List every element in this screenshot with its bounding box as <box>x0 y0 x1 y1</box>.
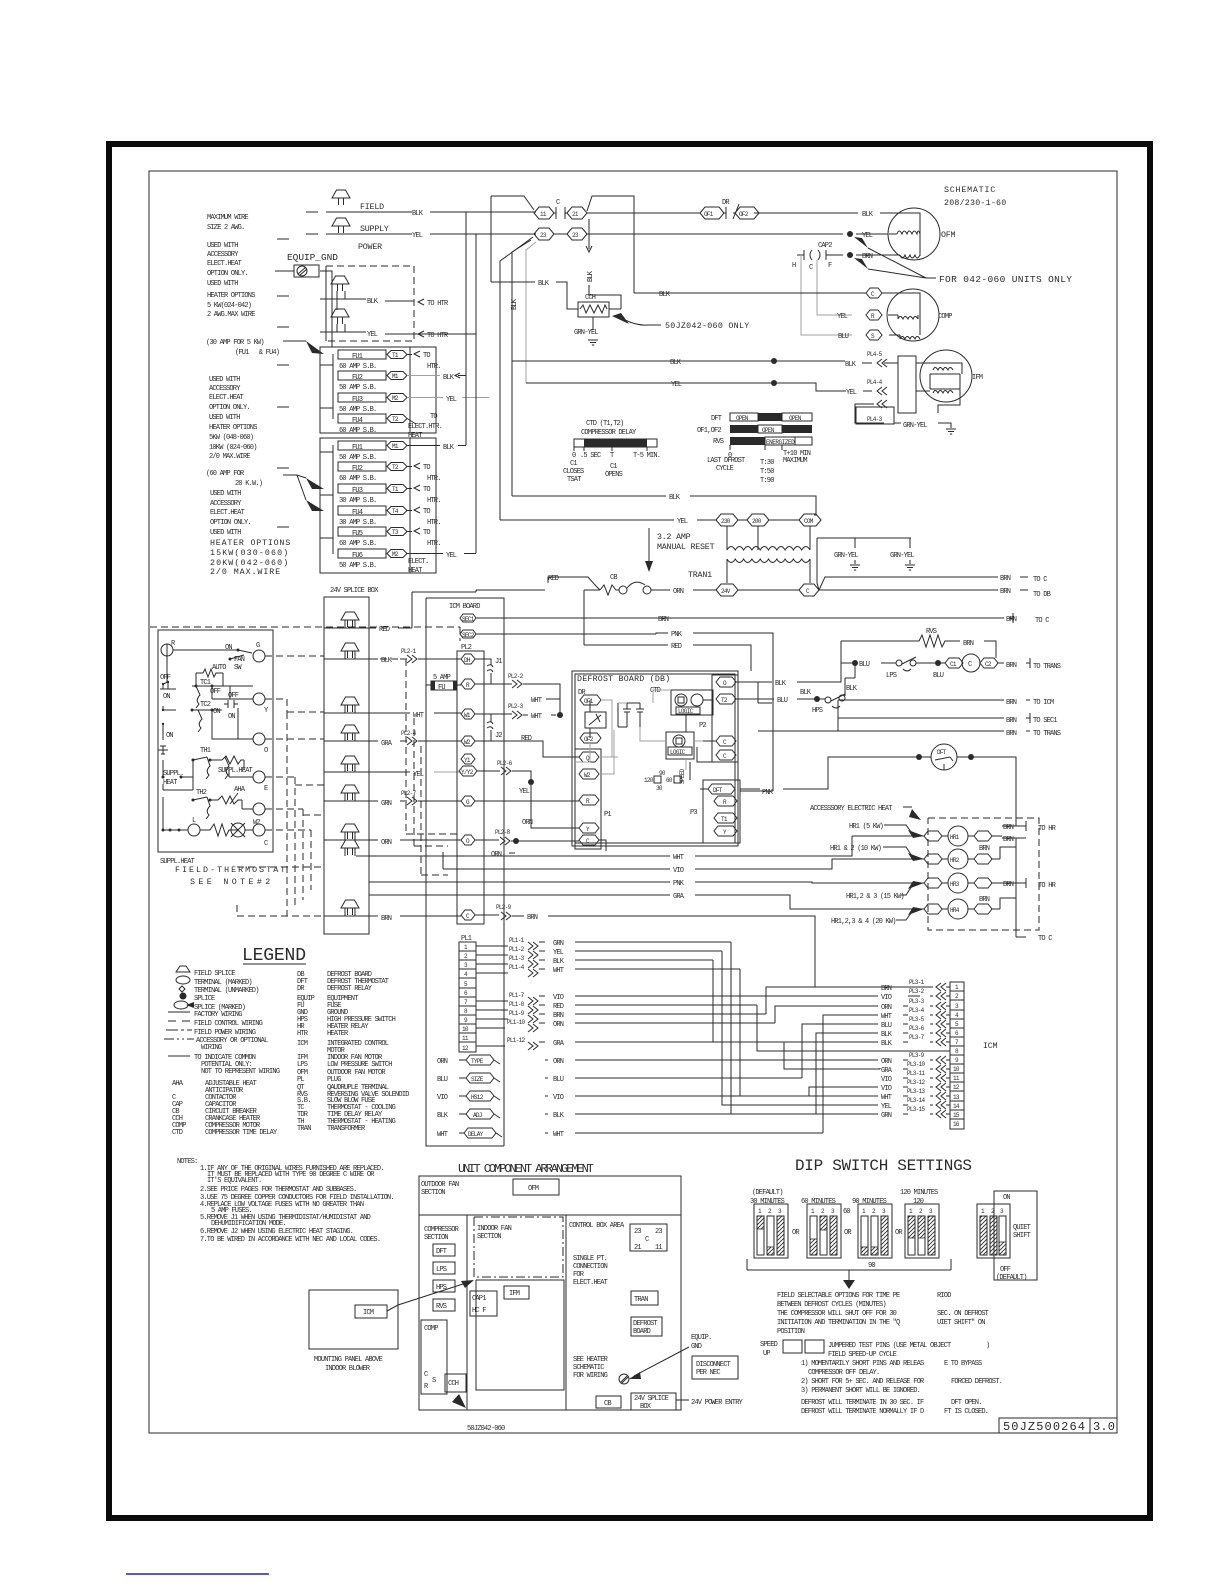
terminal 11 <box>534 207 554 219</box>
svg-text:HR1,2,3 & 4 (20 KW): HR1,2,3 & 4 (20 KW) <box>831 918 896 926</box>
svg-text:FU6: FU6 <box>352 552 363 560</box>
wire brn to sec1 <box>838 713 1030 723</box>
svg-text:YEL: YEL <box>367 331 378 339</box>
terminal C <box>716 736 736 746</box>
svg-text:PL1-4: PL1-4 <box>509 964 525 971</box>
wire blu bundle <box>802 1024 878 1078</box>
cch box <box>445 1374 466 1392</box>
wire YEL to htr <box>320 324 476 334</box>
svg-text:YEL: YEL <box>412 232 423 240</box>
cb box <box>596 1396 621 1408</box>
terminal W2 <box>253 803 265 815</box>
bus to pl4 yel <box>526 242 536 383</box>
svg-text:ADJ: ADJ <box>473 1112 482 1119</box>
dashed loop top <box>150 627 460 641</box>
splice yel <box>341 756 359 771</box>
terminal C <box>461 910 475 920</box>
svg-text:FIELD: FIELD <box>360 203 384 212</box>
svg-text:HTR: HTR <box>297 1030 309 1038</box>
svg-text:CB: CB <box>604 1400 611 1408</box>
terminal S comp <box>866 330 882 340</box>
wire brn bundle <box>766 987 878 1014</box>
ifm box <box>504 1286 529 1299</box>
svg-text:YEL: YEL <box>446 552 457 560</box>
terminal W2 <box>461 736 475 746</box>
svg-text:CYCLE: CYCLE <box>716 465 734 473</box>
svg-text:HR3: HR3 <box>950 881 960 888</box>
svg-text:AHA: AHA <box>172 1080 184 1088</box>
svg-text:WHT: WHT <box>531 697 542 705</box>
svg-text:TH1: TH1 <box>200 747 211 755</box>
svg-text:SCHEMATIC: SCHEMATIC <box>573 1364 604 1372</box>
svg-text:TO HR: TO HR <box>1038 882 1057 890</box>
dashed C wire <box>237 830 324 916</box>
wire brn to icm <box>838 700 1030 731</box>
svg-text:ACCESSORY: ACCESSORY <box>209 385 241 393</box>
svg-text:120: 120 <box>913 1198 924 1206</box>
svg-text:BLK: BLK <box>669 494 681 502</box>
svg-text:VIO: VIO <box>437 1094 448 1102</box>
terminal M1 <box>387 442 407 450</box>
svg-text:BOX: BOX <box>640 1403 652 1411</box>
svg-text:ON: ON <box>163 693 170 701</box>
svg-text:ORN: ORN <box>881 1004 892 1012</box>
svg-text:PL1-8: PL1-8 <box>509 1001 525 1008</box>
svg-text:TO: TO <box>423 352 430 360</box>
terminal T3 <box>387 528 407 536</box>
svg-text:208/230-1-60: 208/230-1-60 <box>944 198 1006 208</box>
svg-text:OPEN: OPEN <box>789 415 802 422</box>
legend splice marked <box>174 1001 188 1009</box>
svg-text:CTD: CTD <box>172 1129 183 1137</box>
grn-yel ground cch <box>592 317 594 330</box>
svg-text:TO: TO <box>423 508 430 516</box>
left bus <box>158 644 193 830</box>
svg-text:BLU: BLU <box>933 672 944 680</box>
svg-text:YEL: YEL <box>671 381 682 389</box>
svg-text:ACCESSSORY ELECTRIC HEAT: ACCESSSORY ELECTRIC HEAT <box>810 805 892 813</box>
svg-text:FU4: FU4 <box>352 509 363 517</box>
wire blk lps <box>738 681 772 683</box>
svg-text:OPTION ONLY.: OPTION ONLY. <box>210 519 251 527</box>
pressure switch LPS <box>896 660 902 666</box>
svg-text:BLU: BLU <box>838 333 849 341</box>
svg-text:ELECT.: ELECT. <box>408 558 428 566</box>
svg-text:120: 120 <box>644 777 654 784</box>
svg-text:UNIT COMPONENT ARRANGEMENT: UNIT COMPONENT ARRANGEMENT <box>458 1162 594 1176</box>
svg-text:OUTDOOR FAN: OUTDOOR FAN <box>421 1181 459 1189</box>
legend field power wiring <box>166 1029 192 1031</box>
svg-text:30 MINUTES: 30 MINUTES <box>750 1198 785 1206</box>
svg-text:COMP: COMP <box>424 1325 438 1333</box>
svg-text:FU2: FU2 <box>352 465 363 473</box>
fuse FU4 <box>338 506 386 515</box>
to elect heat label <box>407 419 416 425</box>
svg-text:PL2-1: PL2-1 <box>401 648 417 655</box>
svg-text:PL1-10: PL1-10 <box>507 1019 526 1026</box>
svg-text:PL4-4: PL4-4 <box>867 379 883 386</box>
wire BLK top <box>326 211 536 213</box>
svg-text:FU5: FU5 <box>352 530 363 538</box>
svg-text:SECTION: SECTION <box>421 1189 445 1197</box>
svg-text:GRA: GRA <box>881 1067 893 1075</box>
arrows into FU3 FU4 <box>306 478 324 489</box>
svg-text:CONNECTION: CONNECTION <box>573 1263 608 1271</box>
wire BLK from M1 <box>407 375 440 377</box>
P1 connector <box>575 749 601 849</box>
svg-text:PL1-7: PL1-7 <box>509 992 525 999</box>
svg-text:PL3-2: PL3-2 <box>909 988 925 995</box>
svg-text:FU4: FU4 <box>352 417 363 425</box>
svg-text:24V POWER ENTRY: 24V POWER ENTRY <box>691 1399 744 1407</box>
svg-text:FOR WIRING: FOR WIRING <box>573 1372 608 1380</box>
comp box <box>421 1320 447 1394</box>
ground lug <box>275 265 319 277</box>
svg-text:21: 21 <box>634 1244 641 1252</box>
svg-text:C1: C1 <box>570 460 577 468</box>
wire brn to c <box>819 577 1028 590</box>
svg-text:BRN: BRN <box>862 253 873 261</box>
terminal T1 <box>714 813 737 823</box>
svg-text:BLU: BLU <box>859 661 870 669</box>
splice gra <box>341 725 359 740</box>
svg-text:FT IS CLOSED.: FT IS CLOSED. <box>944 1408 988 1416</box>
dashed E wire <box>265 777 324 908</box>
wire YEL from M2 <box>407 397 443 399</box>
svg-text:UIET SHIFT" ON: UIET SHIFT" ON <box>937 1319 985 1327</box>
svg-text:BRN: BRN <box>381 915 392 923</box>
svg-text:TO C: TO C <box>1033 576 1047 584</box>
svg-text:NOT TO REPRESENT WIRING: NOT TO REPRESENT WIRING <box>201 1068 280 1076</box>
heater relay HR2 <box>914 849 1000 869</box>
svg-text:VIO: VIO <box>553 994 564 1002</box>
svg-text:VIO: VIO <box>881 994 892 1002</box>
svg-text:CCH: CCH <box>448 1380 459 1388</box>
field splice (field supply) <box>332 190 350 205</box>
svg-text:SEC2: SEC2 <box>462 632 475 639</box>
fuse FU3 <box>338 393 386 402</box>
contactor coil C <box>962 654 980 672</box>
svg-text:SPEED: SPEED <box>760 1341 778 1349</box>
defrost board box <box>631 1317 662 1336</box>
wire wht2 bundle <box>823 1015 878 1133</box>
wire blk2 bundle <box>816 1033 878 1114</box>
terminal T1 <box>387 351 407 359</box>
terminal COM <box>799 514 821 526</box>
terminal T2 <box>387 463 407 471</box>
P2 strip <box>712 675 738 762</box>
svg-text:BLK: BLK <box>538 280 550 288</box>
left stub dashes <box>277 212 318 527</box>
svg-text:OFF: OFF <box>160 674 171 682</box>
svg-text:PL1-3: PL1-3 <box>509 955 525 962</box>
wire YEL from M2 <box>407 553 443 555</box>
svg-text:BLK: BLK <box>443 374 455 382</box>
svg-text:ORN: ORN <box>381 839 392 847</box>
terminal E <box>253 771 265 783</box>
terminal C <box>579 835 599 845</box>
svg-text:23: 23 <box>634 1228 641 1236</box>
svg-text:60 AMP S.B.: 60 AMP S.B. <box>339 363 376 371</box>
svg-text:TO: TO <box>423 464 430 472</box>
svg-text:FACTORY WIRING: FACTORY WIRING <box>194 1011 242 1019</box>
svg-text:BLK: BLK <box>511 298 519 310</box>
legend terminal unmarked <box>179 986 185 992</box>
svg-text:USED WITH: USED WITH <box>207 280 238 288</box>
fuse box A <box>320 347 436 433</box>
svg-text:50 AMP S.B.: 50 AMP S.B. <box>339 454 376 462</box>
svg-text:POSITION: POSITION <box>777 1328 805 1336</box>
terminal C comp <box>866 288 882 298</box>
svg-text:COM: COM <box>804 518 814 525</box>
field splice htr2 <box>331 309 349 324</box>
svg-text:23: 23 <box>655 1228 662 1236</box>
svg-text:ORN: ORN <box>491 851 502 859</box>
svg-text:SECTION: SECTION <box>477 1233 501 1241</box>
svg-text:ORN: ORN <box>673 588 684 596</box>
svg-text:POWER: POWER <box>358 243 382 252</box>
svg-text:TRAN: TRAN <box>634 1296 648 1304</box>
svg-text:ON: ON <box>1003 1194 1010 1202</box>
svg-text:QUIET: QUIET <box>1013 1224 1031 1232</box>
svg-text:RED: RED <box>379 626 390 634</box>
note used with accessory block2 <box>209 376 257 461</box>
svg-text:ON: ON <box>166 732 173 740</box>
pl1-12 gra <box>476 1045 505 1047</box>
splice mid <box>341 840 359 855</box>
svg-text:ICM: ICM <box>297 1040 308 1048</box>
fuse FU1 <box>338 350 386 359</box>
svg-text:TO C: TO C <box>1038 935 1052 943</box>
legend splice <box>180 993 187 1000</box>
svg-text:GRN: GRN <box>553 940 564 948</box>
svg-text:ON: ON <box>228 713 235 721</box>
svg-text:DFT: DFT <box>711 415 722 423</box>
svg-text:5KW (048-060): 5KW (048-060) <box>209 434 254 442</box>
grn-yel ifm ground <box>894 423 951 428</box>
svg-text:TRAN1: TRAN1 <box>688 571 712 580</box>
wire brn to c long <box>616 613 1013 623</box>
pl1-2 yel <box>476 954 508 956</box>
svg-text:LPS: LPS <box>297 1061 308 1069</box>
svg-text:OF2: OF2 <box>584 736 594 743</box>
legend field control wiring <box>168 1020 190 1022</box>
svg-text:HR1 (5 KW): HR1 (5 KW) <box>849 823 884 831</box>
svg-text:PER NEC: PER NEC <box>696 1369 720 1377</box>
internal traces <box>575 690 716 774</box>
lps box <box>433 1262 455 1274</box>
svg-text:COMPRESSOR DELAY: COMPRESSOR DELAY <box>581 429 637 437</box>
wire wht bundle <box>740 969 878 1096</box>
wire yel pl4-4 <box>526 383 872 391</box>
svg-text:WHT: WHT <box>413 712 424 720</box>
svg-text:ACCESSORY: ACCESSORY <box>207 251 239 259</box>
svg-text:HC F: HC F <box>472 1307 486 1315</box>
svg-text:GRA: GRA <box>381 740 393 748</box>
svg-text:F: F <box>828 262 832 270</box>
svg-text:60 AMP S.B.: 60 AMP S.B. <box>339 475 376 483</box>
svg-text:PL3-14: PL3-14 <box>907 1097 926 1104</box>
svg-text:MOUNTING PANEL ABOVE: MOUNTING PANEL ABOVE <box>314 1356 383 1364</box>
border frame inner <box>149 171 1117 1433</box>
svg-text:SCHEMATIC: SCHEMATIC <box>944 186 995 195</box>
svg-text:T: T <box>610 452 614 460</box>
svg-text:SEC. ON DEFROST: SEC. ON DEFROST <box>937 1310 989 1318</box>
svg-text:SHIFT: SHIFT <box>1013 1232 1031 1240</box>
svg-text:TO HTR: TO HTR <box>427 332 449 340</box>
svg-text:BLK: BLK <box>659 291 671 299</box>
svg-text:ELECT.HEAT: ELECT.HEAT <box>210 509 245 517</box>
heater relay HR1 <box>914 826 1002 846</box>
dashed O wire <box>265 712 324 916</box>
svg-text:OPENS: OPENS <box>605 471 623 479</box>
svg-text:PL1-2: PL1-2 <box>509 946 525 953</box>
wire grn bundle <box>731 942 878 1114</box>
svg-text:.5 SEC: .5 SEC <box>580 452 601 460</box>
pl1 pin strip <box>459 942 476 1052</box>
svg-text:SECTION: SECTION <box>424 1234 448 1242</box>
svg-text:WHT: WHT <box>881 1013 892 1021</box>
svg-text:FIELD SPLICE: FIELD SPLICE <box>194 970 235 978</box>
bus vertical blk <box>458 212 466 446</box>
plug PL2-2 <box>475 683 512 685</box>
terminal W1 <box>461 709 475 719</box>
svg-text:ORN: ORN <box>553 1021 564 1029</box>
svg-text:TERMINAL (MARKED): TERMINAL (MARKED) <box>194 979 252 987</box>
rvs box <box>433 1299 455 1311</box>
svg-text:P3: P3 <box>690 809 697 817</box>
dashed accessory box <box>326 266 414 341</box>
svg-text:OFF: OFF <box>228 692 239 700</box>
svg-text:ELECT.HEAT: ELECT.HEAT <box>207 260 242 268</box>
svg-text:DEFROST WILL TERMINATE IN 30 S: DEFROST WILL TERMINATE IN 30 SEC. IF <box>801 1399 924 1407</box>
svg-text:SPEED: SPEED <box>679 768 686 784</box>
arrow into FU1 <box>306 341 324 354</box>
terminal T4 <box>387 507 407 515</box>
terminal R <box>714 796 737 806</box>
svg-text:BLU: BLU <box>881 1022 892 1030</box>
svg-text:YEL: YEL <box>862 232 873 240</box>
svg-text:BRN: BRN <box>1006 717 1017 725</box>
bus vertical yel <box>475 234 477 553</box>
svg-text:90 MINUTES: 90 MINUTES <box>852 1198 887 1206</box>
defrost timing table <box>697 413 812 485</box>
svg-text:2/0 MAX.WIRE: 2/0 MAX.WIRE <box>209 453 250 461</box>
svg-text:TRANSFORMER: TRANSFORMER <box>327 1125 366 1133</box>
svg-text:BRN: BRN <box>1000 575 1011 583</box>
svg-text:60 MINUTES: 60 MINUTES <box>801 1198 836 1206</box>
svg-text:DEFROST WILL TERMINATE NORMALL: DEFROST WILL TERMINATE NORMALLY IF D <box>801 1408 924 1416</box>
for 042-060 callout <box>854 237 868 248</box>
terminal G <box>461 796 475 806</box>
to htr arrow 2 <box>418 331 424 337</box>
fuse FU6 <box>338 549 386 558</box>
terminal R comp <box>866 310 882 320</box>
svg-text:VIO: VIO <box>881 1076 892 1084</box>
svg-text:(60 AMP FOR: (60 AMP FOR <box>206 470 245 478</box>
wire yel bundle <box>722 951 878 1105</box>
svg-text:LOGIC: LOGIC <box>678 708 694 715</box>
svg-text:TYPE: TYPE <box>471 1058 484 1065</box>
dip block 2 <box>807 1204 841 1258</box>
svg-text:INDOOR BLOWER: INDOOR BLOWER <box>325 1365 371 1373</box>
svg-text:OPTION ONLY.: OPTION ONLY. <box>209 404 250 412</box>
bottom row L resistor X C <box>188 824 200 836</box>
svg-text:BLK: BLK <box>800 689 812 697</box>
svg-text:(30 AMP FOR 5 KW): (30 AMP FOR 5 KW) <box>206 339 264 347</box>
svg-text:E: E <box>264 785 268 793</box>
on left lower <box>163 710 176 730</box>
defrost thermostat DFT <box>916 744 974 770</box>
pl1-9 brn <box>476 1018 508 1020</box>
svg-text:PLUG: PLUG <box>327 1076 341 1084</box>
svg-text:CAP2: CAP2 <box>818 242 832 250</box>
svg-text:OF1: OF1 <box>584 698 594 705</box>
wire blk pl4-5 <box>512 361 872 363</box>
svg-text:24V SPLICE: 24V SPLICE <box>634 1395 669 1403</box>
terminal R <box>579 795 599 805</box>
indoor fan motor IFM <box>884 350 983 413</box>
svg-text:HEAT: HEAT <box>408 567 422 575</box>
svg-text:TO DB: TO DB <box>1033 591 1051 599</box>
svg-text:TRAN: TRAN <box>297 1125 311 1133</box>
wire brn to db <box>819 589 1028 591</box>
svg-text:2/0 MAX.WIRE: 2/0 MAX.WIRE <box>210 567 280 577</box>
tran box <box>631 1291 658 1305</box>
svg-text:FIELD CONTROL WIRING: FIELD CONTROL WIRING <box>194 1020 263 1028</box>
svg-text:UP: UP <box>763 1350 770 1358</box>
svg-text:PL3-7: PL3-7 <box>909 1034 925 1041</box>
terminal 21 <box>567 207 587 219</box>
svg-text:PL3-9: PL3-9 <box>909 1052 925 1059</box>
terminal box 23 <box>630 1224 667 1251</box>
legend field splice <box>176 966 190 972</box>
svg-text:S: S <box>432 1377 436 1385</box>
svg-text:THE COMPRESSOR WILL SHUT OFF F: THE COMPRESSOR WILL SHUT OFF FOR 30 <box>777 1310 897 1318</box>
svg-text:HTR.: HTR. <box>427 363 441 371</box>
svg-text:FIELD SELECTABLE OPTIONS FOR T: FIELD SELECTABLE OPTIONS FOR TIME PE <box>777 1292 900 1300</box>
terminal C tran <box>799 584 819 596</box>
svg-text:COMPRESSOR OFF DELAY.: COMPRESSOR OFF DELAY. <box>808 1369 879 1377</box>
defrost board box <box>572 671 738 846</box>
svg-text:JUMPERED TEST PINS (USE METAL: JUMPERED TEST PINS (USE METAL OBJECT <box>828 1342 951 1350</box>
svg-text:BLK: BLK <box>553 1112 565 1120</box>
splice dot <box>771 358 777 364</box>
svg-text:BLK: BLK <box>670 359 682 367</box>
svg-text:GND: GND <box>691 1343 702 1351</box>
svg-text:DIP SWITCH SETTINGS: DIP SWITCH SETTINGS <box>795 1157 972 1175</box>
dip block 4 <box>905 1204 939 1258</box>
field splice 2 <box>332 218 350 233</box>
svg-text:E TO BYPASS: E TO BYPASS <box>944 1360 982 1368</box>
svg-text:PNK: PNK <box>673 880 685 888</box>
svg-text:FU: FU <box>438 684 445 692</box>
svg-text:DFT OPEN.: DFT OPEN. <box>951 1399 982 1407</box>
svg-text:FU3: FU3 <box>352 487 363 495</box>
svg-text:120 MINUTES: 120 MINUTES <box>900 1189 938 1197</box>
svg-text:24V: 24V <box>721 588 731 595</box>
terminal O <box>461 835 475 845</box>
svg-text:T:90: T:90 <box>760 477 774 485</box>
svg-text:TO: TO <box>423 486 430 494</box>
svg-text:PL2-6: PL2-6 <box>497 760 513 767</box>
svg-text:230: 230 <box>721 518 731 525</box>
plug PL2-3 <box>475 713 512 715</box>
svg-text:FOR 042-060 UNITS ONLY: FOR 042-060 UNITS ONLY <box>939 274 1072 285</box>
svg-text:ORN: ORN <box>522 819 533 827</box>
terminal T2 <box>716 694 736 704</box>
splice dot brn <box>847 252 853 258</box>
